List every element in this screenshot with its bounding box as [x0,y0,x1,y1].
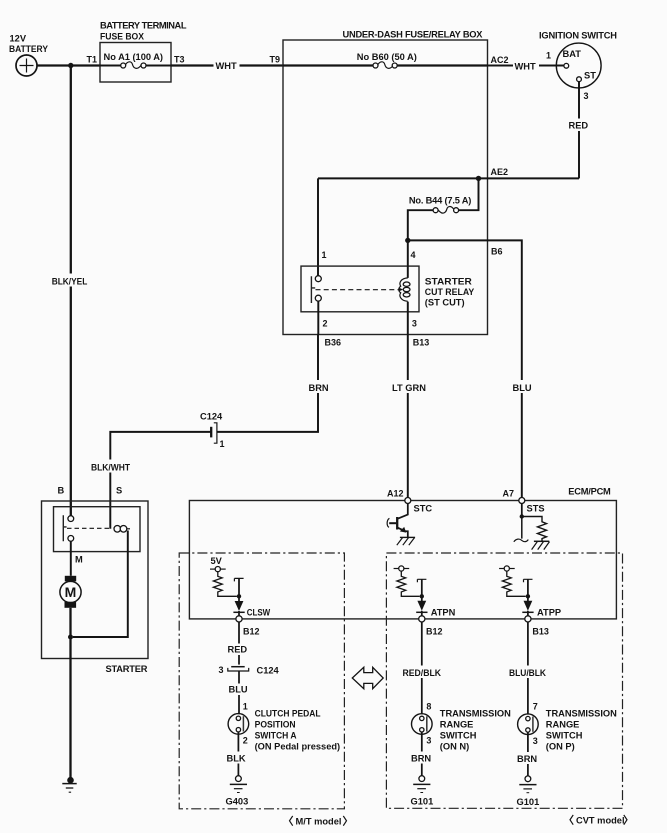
svg-text:CLUTCH PEDAL: CLUTCH PEDAL [255,709,321,719]
under-dash fuse/relay box [283,30,488,335]
svg-text:AC2: AC2 [491,55,509,65]
svg-text:T1: T1 [86,55,97,65]
svg-text:BATTERY TERMINAL: BATTERY TERMINAL [100,21,187,31]
svg-text:CUT RELAY: CUT RELAY [425,287,475,297]
svg-text:12V: 12V [10,34,27,44]
wire RED B12 down [227,622,251,665]
fuse B44 (7.5 A) [408,178,479,240]
starter cut relay K1 [301,240,475,334]
wire BLK/WHT C124 to starter S [89,432,211,529]
svg-text:BRN: BRN [517,754,537,764]
svg-text:T3: T3 [174,55,185,65]
svg-text:A7: A7 [502,489,514,499]
wire BLK/YEL battery down to starter B [50,66,90,516]
svg-text:LT GRN: LT GRN [392,383,426,393]
svg-text:G403: G403 [226,797,249,807]
buffer ATPP input [522,579,561,617]
node junction B44/B6 [405,238,410,243]
svg-text:FUSE BOX: FUSE BOX [100,32,145,42]
svg-text:BLU/BLK: BLU/BLK [509,668,546,678]
svg-text:A12: A12 [387,489,404,499]
motor brush bottom [65,602,77,608]
wire BLU to clutch switch [227,671,250,714]
svg-text:2: 2 [323,319,328,329]
svg-text:BLK/WHT: BLK/WHT [91,463,130,473]
battery 12V [9,34,49,77]
svg-text:WHT: WHT [515,62,536,72]
wire BRN to G101 left [410,732,435,776]
svg-text:STARTER: STARTER [106,664,148,674]
svg-text:IGNITION SWITCH: IGNITION SWITCH [539,31,617,41]
svg-text:3: 3 [426,736,431,746]
svg-text:B12: B12 [426,627,443,637]
starter solenoid inner box [54,507,141,552]
svg-text:RED: RED [228,645,248,655]
svg-text:M/T model: M/T model [296,817,342,827]
svg-text:S: S [116,486,122,496]
svg-text:No B60 (50 A): No B60 (50 A) [357,52,417,62]
label (M/T model) [290,816,347,827]
terminal B12 ATPN [419,616,425,622]
wire LT GRN from B13 to ECM A12 [391,335,428,498]
svg-text:3: 3 [584,91,589,101]
svg-text:RANGE: RANGE [440,720,474,730]
svg-text:B13: B13 [413,338,430,348]
svg-text:G101: G101 [517,797,540,807]
svg-text:5V: 5V [211,556,223,566]
svg-text:BLU: BLU [229,685,248,695]
terminal A7 [519,498,525,504]
svg-text:2: 2 [243,736,248,746]
svg-text:TRANSMISSION: TRANSMISSION [546,709,617,719]
svg-text:STS: STS [527,504,545,514]
svg-text:CLSW: CLSW [247,608,271,618]
starter solenoid coil L1 [114,526,130,533]
svg-text:G101: G101 [411,797,434,807]
starter M1 outer box [42,501,149,659]
svg-text:WHT: WHT [216,61,237,71]
svg-text:C124: C124 [257,666,280,676]
svg-text:B6: B6 [491,247,503,257]
resistor R1 STS pull [514,504,550,550]
svg-text:ATPP: ATPP [537,608,561,618]
svg-text:3: 3 [412,319,417,329]
wire BLU/BLK to range switch [507,622,550,714]
fuse A1 (100 A) [100,52,171,68]
svg-text:ATPN: ATPN [431,608,456,618]
svg-text:BAT: BAT [563,49,582,59]
ECM/PCM box [189,487,616,619]
wire AE2 horizontal [318,177,579,179]
svg-text:No A1 (100 A): No A1 (100 A) [104,52,164,62]
node junction motor/coil [68,635,73,640]
svg-text:3: 3 [533,736,538,746]
wire motor to ground [69,608,71,780]
CVT model dash-dot box [386,553,622,808]
resistor R2 CLSW pull-up [213,572,237,597]
svg-text:RED: RED [569,121,589,131]
resistor R3 ATPN pull-up [397,571,420,596]
svg-text:CVT model: CVT model [576,816,625,826]
wire coil return to motor node [73,531,128,638]
transmission range switch (ON N) [412,709,512,752]
starter solenoid dashed link [67,527,111,529]
node 5V ATPN [394,566,410,571]
connector C124 pin 3 [218,665,279,676]
buffer CLSW input [233,578,270,617]
double arrow swap symbol [352,667,383,688]
buffer ATPN input [416,579,455,617]
wire B6 BLU to ECM A7 [408,240,534,497]
terminal B13 ATPP [525,616,531,622]
clutch pedal position switch A [228,709,340,752]
node junction battery [68,63,73,68]
svg-text:B: B [58,486,65,496]
wire BLK to G403 [226,732,250,776]
starter switch bar [63,515,66,541]
fuse B60 (50 A) [283,52,488,68]
wire RED ignition down [567,82,591,179]
svg-text:B13: B13 [532,627,549,637]
wire battery to fuse box [37,64,100,66]
wire BRN to G101 right [516,732,541,776]
svg-text:BRN: BRN [411,754,431,764]
ground chassis starter [62,777,76,792]
wire WHT to ignition switch [488,60,564,72]
svg-text:SWITCH A: SWITCH A [255,731,297,741]
svg-text:(ON N): (ON N) [440,742,469,752]
svg-text:BLU: BLU [513,383,532,393]
svg-text:BLK/YEL: BLK/YEL [52,277,88,287]
battery terminal fuse box [100,21,187,83]
wire contact to motor [70,541,72,576]
wire relay pin 1 up to AE2 [317,178,319,275]
svg-text:7: 7 [533,702,538,712]
ignition switch U1 [539,31,617,88]
svg-text:BLK: BLK [227,754,246,764]
svg-text:C124: C124 [200,412,223,422]
transmission range switch (ON P) [518,709,617,752]
ground G403 [226,776,249,807]
svg-text:4: 4 [411,250,416,260]
connector C124 pin 1 [200,412,225,450]
svg-text:POSITION: POSITION [255,720,296,730]
svg-text:BRN: BRN [309,383,329,393]
svg-text:1: 1 [322,250,327,260]
svg-text:1: 1 [220,439,225,449]
svg-text:(ST CUT): (ST CUT) [425,298,465,308]
svg-text:ECM/PCM: ECM/PCM [568,487,611,497]
motor M [60,581,81,602]
svg-text:1: 1 [243,702,248,712]
svg-text:SWITCH: SWITCH [440,731,477,741]
svg-text:1: 1 [546,51,551,61]
terminal A12 [405,498,411,504]
starter contact B terminal [68,516,74,522]
wire WHT fusebox to under-dash box [171,59,283,72]
resistor R4 ATPP pull-up [502,571,525,596]
svg-text:M: M [65,584,77,600]
svg-text:BATTERY: BATTERY [9,44,49,54]
svg-text:(ON P): (ON P) [546,742,575,752]
svg-text:STARTER: STARTER [425,277,472,287]
svg-text:8: 8 [426,702,431,712]
svg-text:STC: STC [414,504,433,514]
node 5V ATPP [499,566,515,571]
wire RED/BLK to range switch [401,622,444,714]
svg-text:T9: T9 [269,55,280,65]
node junction CLSW [237,594,241,598]
svg-text:TRANSMISSION: TRANSMISSION [440,709,511,719]
wire relay pin 2 down [317,301,319,334]
svg-text:AE2: AE2 [491,167,509,177]
svg-text:UNDER-DASH FUSE/RELAY BOX: UNDER-DASH FUSE/RELAY BOX [343,30,484,40]
M/T model dash-dot box [179,553,344,809]
node 5V [210,556,226,572]
starter contact M terminal [68,536,74,542]
terminal B12 CLSW [236,616,242,622]
svg-text:B12: B12 [243,627,260,637]
wire BRN from B36 to C124 [217,335,330,432]
motor brush top [65,576,76,582]
svg-text:RANGE: RANGE [546,720,580,730]
transistor Q1 STC [387,504,415,546]
svg-text:B36: B36 [325,338,342,348]
svg-text:M: M [75,555,83,565]
node junction ATPP [526,594,530,598]
svg-text:(ON Pedal pressed): (ON Pedal pressed) [255,742,341,752]
label (CVT model) [570,815,627,826]
svg-text:No. B44 (7.5 A): No. B44 (7.5 A) [409,196,472,206]
ground G101 right [517,776,540,807]
svg-text:ST: ST [584,71,596,81]
svg-text:RED/BLK: RED/BLK [403,668,442,678]
node junction AE2 [476,176,481,181]
node junction ATPN [420,594,424,598]
ground G101 left [411,776,434,807]
svg-text:SWITCH: SWITCH [546,731,583,741]
svg-text:3: 3 [218,665,223,675]
